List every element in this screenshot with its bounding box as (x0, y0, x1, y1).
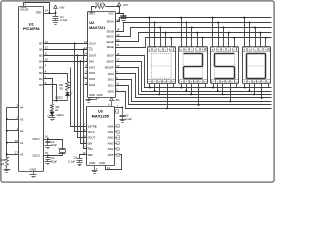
svg-text:AIN4: AIN4 (108, 147, 114, 151)
svg-text:AIN0: AIN0 (108, 124, 114, 128)
U3 pin AIN1 (108, 130, 120, 134)
node A-bus vertical wire to R4 (6, 108, 8, 158)
svg-text:SCLK: SCLK (88, 130, 95, 134)
border frame (1, 1, 274, 182)
wire DS2 segment A drop (180, 17, 182, 47)
svg-text:CS: CS (89, 48, 93, 52)
svg-text:GND: GND (89, 161, 95, 165)
resistor R3 10k ISET to +5V (92, 1, 121, 11)
svg-text:0.1µF: 0.1µF (68, 160, 75, 164)
U2 pin 21 SEGE bus wire (107, 38, 272, 50)
U3 pin 10 DOUT (83, 135, 96, 140)
U2 pin 1 DIN (85, 58, 93, 64)
svg-text:10: 10 (45, 58, 49, 62)
U2 pin 16 SEGB bus wire (107, 23, 272, 34)
microcontroller U1 PIC16F84 (19, 7, 44, 172)
capacitor C6 0.1uF (120, 108, 133, 121)
svg-text:15: 15 (45, 151, 49, 155)
U1 pin 18 A1 (7, 139, 24, 145)
wire SCLK down to U3 (74, 43, 87, 132)
wire B6 to U2 CS (44, 49, 88, 51)
U3 pin 14 REF (83, 152, 94, 157)
svg-text:AIN1: AIN1 (108, 130, 114, 134)
svg-text:GND: GND (89, 93, 95, 97)
svg-text:DIG6: DIG6 (89, 71, 96, 75)
U3 pin 12 CS2 (83, 146, 94, 151)
U2 pin 2 DIG0 bus wire (108, 88, 272, 109)
svg-text:DOUT: DOUT (89, 54, 97, 58)
wire DS3 segment D drop (228, 32, 230, 47)
ground below C3 (45, 162, 52, 165)
U1 pin 8 B2 label (39, 69, 46, 75)
svg-text:AIN2: AIN2 (108, 136, 114, 140)
wire DS3 segment B drop (217, 21, 219, 46)
U1 pin 10 B4 label (39, 58, 48, 64)
svg-text:R1: R1 (55, 108, 59, 112)
svg-text:B4: B4 (39, 59, 43, 63)
svg-text:DIG5: DIG5 (89, 77, 96, 81)
wire DS4 DP drop (253, 84, 255, 96)
svg-text:DOUT: DOUT (88, 136, 96, 140)
svg-text:PIC16F84: PIC16F84 (23, 27, 41, 31)
wire DS3 DP drop (222, 84, 224, 96)
wire DS2 segment C drop (191, 27, 193, 47)
U3 REF pin wire to C4 (80, 155, 87, 159)
7-segment display DS2 digit 2 (179, 47, 208, 84)
U1 OSC2 pin 15 (32, 151, 48, 158)
wire DS1 F drop (149, 84, 151, 89)
wire DIN down to U3 (80, 60, 87, 143)
svg-text:SEGD: SEGD (106, 40, 113, 44)
U1 pin 6 B0 label (39, 81, 46, 87)
wire B1 drop to LED node (44, 79, 53, 101)
svg-text:DIG3: DIG3 (108, 72, 115, 76)
wire B5 to U2 DOUT (44, 55, 88, 57)
wire DS2 common cathode drop (198, 84, 206, 106)
svg-text:DIG2: DIG2 (108, 78, 115, 82)
svg-text:+5V: +5V (122, 3, 129, 7)
crystal Y1 (48, 140, 66, 156)
wire DS1 segment D drop (165, 32, 167, 47)
U1 pin 1 A2 (7, 127, 24, 133)
ground below C5 (121, 19, 127, 23)
U1 pin 3 A4 (7, 104, 24, 110)
node LED connector wire (53, 100, 68, 102)
U2 pin 23 SEGD bus wire (106, 33, 271, 44)
wire DS4 segment A drop (243, 17, 245, 47)
U1 GND pin 5 wire (33, 172, 35, 175)
wire B0 drop to LED node (44, 85, 58, 102)
resistor R2 15k (59, 82, 70, 91)
U3 pin AIN3 (108, 141, 120, 145)
U2 pin 6 DIG2 bus wire (108, 76, 272, 102)
wire DS2 segment B drop (185, 21, 187, 46)
svg-text:A0: A0 (20, 153, 24, 157)
wire B2 to R2 (44, 74, 68, 82)
U2 pin 24 DOUT (84, 52, 97, 58)
LED2 (55, 92, 72, 101)
wire DS4 segment D drop (259, 32, 261, 47)
U2 pin 10 DIG5 (84, 75, 96, 81)
svg-text:A4: A4 (20, 106, 24, 110)
capacitor C1 0.1uF (53, 14, 68, 23)
U2 pin 8 DIG7 (85, 64, 96, 70)
wire DS1 DP drop (158, 84, 160, 96)
LED1 (48, 111, 65, 118)
wire DS4 segment E drop (265, 37, 267, 47)
7-segment display DS3 digit 5 (211, 47, 239, 84)
wire DS2 G drop (185, 84, 187, 92)
wire DS1 segment C drop (159, 27, 161, 47)
svg-text:GND: GND (97, 93, 103, 97)
U2 SEGA label (107, 20, 114, 24)
svg-text:MAX1295: MAX1295 (92, 113, 110, 118)
LED display driver U2 MAX7221 (88, 12, 116, 98)
svg-text:R4: R4 (1, 162, 5, 166)
svg-text:U1: U1 (29, 21, 35, 26)
svg-text:+5V: +5V (59, 6, 66, 10)
U1 pin 17 A0 (7, 151, 24, 157)
wire DS2 F drop (181, 84, 183, 89)
wire DS3 F drop (212, 84, 214, 89)
U1 pin 11 B5 label (39, 52, 48, 58)
svg-text:A3: A3 (20, 117, 24, 121)
svg-text:18: 18 (15, 139, 19, 143)
wire U1 VDD pin 14 to +5V node (44, 9, 56, 14)
U1 OSC1 pin 16 (32, 135, 48, 142)
wire DS2 segment D drop (196, 32, 198, 47)
svg-text:B6: B6 (39, 48, 43, 52)
capacitor C3 22uF (46, 154, 58, 163)
svg-text:OSC1: OSC1 (32, 137, 40, 141)
svg-text:OSC2: OSC2 (32, 154, 40, 158)
U2 pin 3 DIG4 (85, 81, 96, 87)
U3 pin AIN4 (108, 147, 120, 151)
svg-text:SEGE: SEGE (107, 45, 114, 49)
ground below U1 (30, 175, 37, 178)
svg-text:MAX7221: MAX7221 (89, 26, 105, 30)
+5V symbol above U3 (108, 98, 121, 107)
wire DS3 segment E drop (233, 37, 235, 47)
ground below C2 (45, 146, 52, 149)
svg-text:SEGB: SEGB (107, 30, 114, 34)
svg-text:DIG0: DIG0 (108, 90, 115, 94)
U2 pin 11 DIG1 bus wire (108, 81, 272, 104)
ground below R4 (4, 167, 11, 173)
U3 pin 7 SSTRB (84, 124, 97, 129)
svg-text:C4: C4 (73, 155, 77, 159)
wire DS3 segment A drop (212, 17, 214, 47)
U3 pin 11 DIN (83, 141, 92, 146)
wire DS3 G drop (217, 84, 219, 92)
U2 GND pins 4 and 9 to ground (89, 98, 100, 101)
svg-text:DIG7: DIG7 (89, 65, 96, 69)
U2 pin 12 CS (84, 46, 93, 52)
svg-text:DIN: DIN (89, 59, 94, 63)
U3 pin AIN0 (108, 124, 120, 128)
svg-text:DIG4: DIG4 (89, 83, 96, 87)
7-segment display DS1 (blank) (148, 47, 176, 84)
svg-text:14: 14 (45, 9, 49, 13)
+5V symbol above U2 (117, 3, 129, 7)
U3 pin 19 SCLK (83, 129, 95, 134)
wire DOUT down to U3 (76, 54, 86, 137)
svg-text:B5: B5 (39, 54, 43, 58)
svg-text:SEGG: SEGG (106, 60, 114, 64)
svg-text:SEGC: SEGC (106, 35, 113, 39)
U3 pin AIN2 (108, 136, 120, 140)
U1 pin 13 B7 label (39, 40, 48, 46)
ground below U3 (92, 171, 98, 174)
svg-text:B3: B3 (39, 65, 43, 69)
svg-text:22µF: 22µF (51, 143, 58, 147)
svg-text:11: 11 (45, 52, 48, 56)
svg-text:B7: B7 (39, 42, 43, 46)
capacitor C5 bypass at U2 VCC (120, 14, 127, 19)
wire B7 to U2 SCLK (44, 43, 88, 45)
svg-text:DIN: DIN (88, 141, 93, 145)
svg-text:SSTRB: SSTRB (88, 124, 97, 128)
svg-text:SEGA: SEGA (107, 20, 114, 24)
wire DS3 common cathode drop (229, 84, 236, 103)
capacitor C2 22uF (46, 138, 58, 147)
svg-text:VDD: VDD (36, 10, 42, 14)
U2 pin 5 DIG6 (85, 69, 96, 75)
wire DS1 G drop (154, 84, 156, 92)
svg-text:B0: B0 (39, 83, 43, 87)
ground below LED1 (49, 117, 56, 121)
U1 pin 12 B6 label (39, 46, 48, 52)
svg-text:A2: A2 (20, 129, 24, 133)
wire DS4 G drop (248, 84, 250, 92)
svg-text:C6: C6 (125, 114, 129, 118)
svg-text:B2: B2 (39, 71, 43, 75)
svg-text:MCLR: MCLR (20, 8, 28, 12)
wire DS2 DP drop (190, 84, 192, 96)
wire DS4 segment C drop (254, 27, 256, 47)
svg-text:AIN3: AIN3 (108, 141, 114, 145)
svg-text:16: 16 (45, 135, 49, 139)
U2 pin 20 SEGC bus wire (106, 28, 271, 39)
svg-text:0.1µF: 0.1µF (60, 18, 68, 22)
svg-text:AIN5: AIN5 (108, 153, 114, 157)
wire DS4 common cathode drop (261, 84, 269, 99)
svg-text:U2: U2 (89, 20, 95, 25)
svg-text:GND: GND (99, 161, 105, 165)
U2 pin 15 SEGF bus wire (107, 52, 272, 88)
svg-text:GND: GND (30, 167, 38, 171)
capacitor C4 0.1uF (68, 155, 82, 163)
wire DS4 segment B drop (249, 21, 251, 46)
svg-text:A1: A1 (20, 141, 24, 145)
svg-text:R2: R2 (60, 86, 64, 90)
svg-text:R3 10k: R3 10k (95, 1, 105, 5)
svg-text:17: 17 (15, 151, 19, 155)
svg-text:DIG1: DIG1 (108, 83, 115, 87)
ground below C6 (120, 120, 126, 123)
svg-text:SEGF: SEGF (107, 54, 114, 58)
ground below C4 (77, 163, 83, 166)
7-segment display DS4 digit 0 (243, 47, 271, 84)
svg-text:SCLK: SCLK (89, 42, 96, 46)
wire B4 to U2 DIN (44, 61, 88, 63)
U3 pin COM wire to C6 (115, 106, 124, 109)
+5V supply symbol top-left (54, 5, 66, 14)
U1 pin 2 A3 (7, 115, 24, 121)
ADC U3 MAX1295 (87, 107, 115, 166)
wire DS1 common cathode drop (166, 84, 173, 110)
U2 pin 7 DIG3 bus wire (108, 70, 272, 97)
wire DS1 segment A drop (148, 17, 150, 47)
wire AIN5 to ground net (106, 155, 122, 170)
svg-text:+5V: +5V (114, 98, 121, 102)
U3 GND pin 8 to ground (95, 166, 99, 171)
wire CS down to U3 CS2 (83, 48, 87, 148)
ground below U2 (86, 100, 92, 103)
U2 pin 13 SCLK (84, 40, 96, 46)
svg-text:22µF: 22µF (51, 160, 58, 164)
U2 pin 22 SEGDP bus wire (105, 64, 272, 95)
svg-text:B1: B1 (39, 77, 43, 81)
U2 pin 14 SEGA bus wire (116, 18, 272, 22)
resistor R4 100k (0, 158, 8, 167)
svg-text:REF: REF (88, 153, 94, 157)
U1 pin 9 B3 label (39, 63, 46, 69)
U1 pin 7 B1 label (39, 75, 46, 81)
wire DS2 segment E drop (202, 37, 204, 47)
U3 pin 2 stub (115, 110, 119, 114)
wire DS1 segment B drop (154, 21, 156, 46)
svg-text:SEGDP: SEGDP (105, 66, 114, 70)
svg-text:LED1: LED1 (57, 113, 65, 117)
svg-text:100k: 100k (0, 158, 6, 162)
svg-text:0.1µF: 0.1µF (125, 117, 132, 121)
wire DS1 segment E drop (170, 37, 172, 47)
U2 VCC pin 19 wire to +5V (116, 7, 121, 14)
wire DS4 F drop (244, 84, 246, 89)
ground below C1 (53, 21, 59, 25)
wire B3 to U3 SSTRB (71, 68, 87, 127)
U3 pin AIN5 (108, 153, 120, 157)
U2 pin 17 SEGG bus wire (106, 58, 271, 92)
resistor R1 15k (51, 101, 61, 113)
wire DS3 segment C drop (222, 27, 224, 47)
svg-text:CS2: CS2 (88, 147, 94, 151)
wire MCLR to +5V rail (24, 3, 50, 14)
